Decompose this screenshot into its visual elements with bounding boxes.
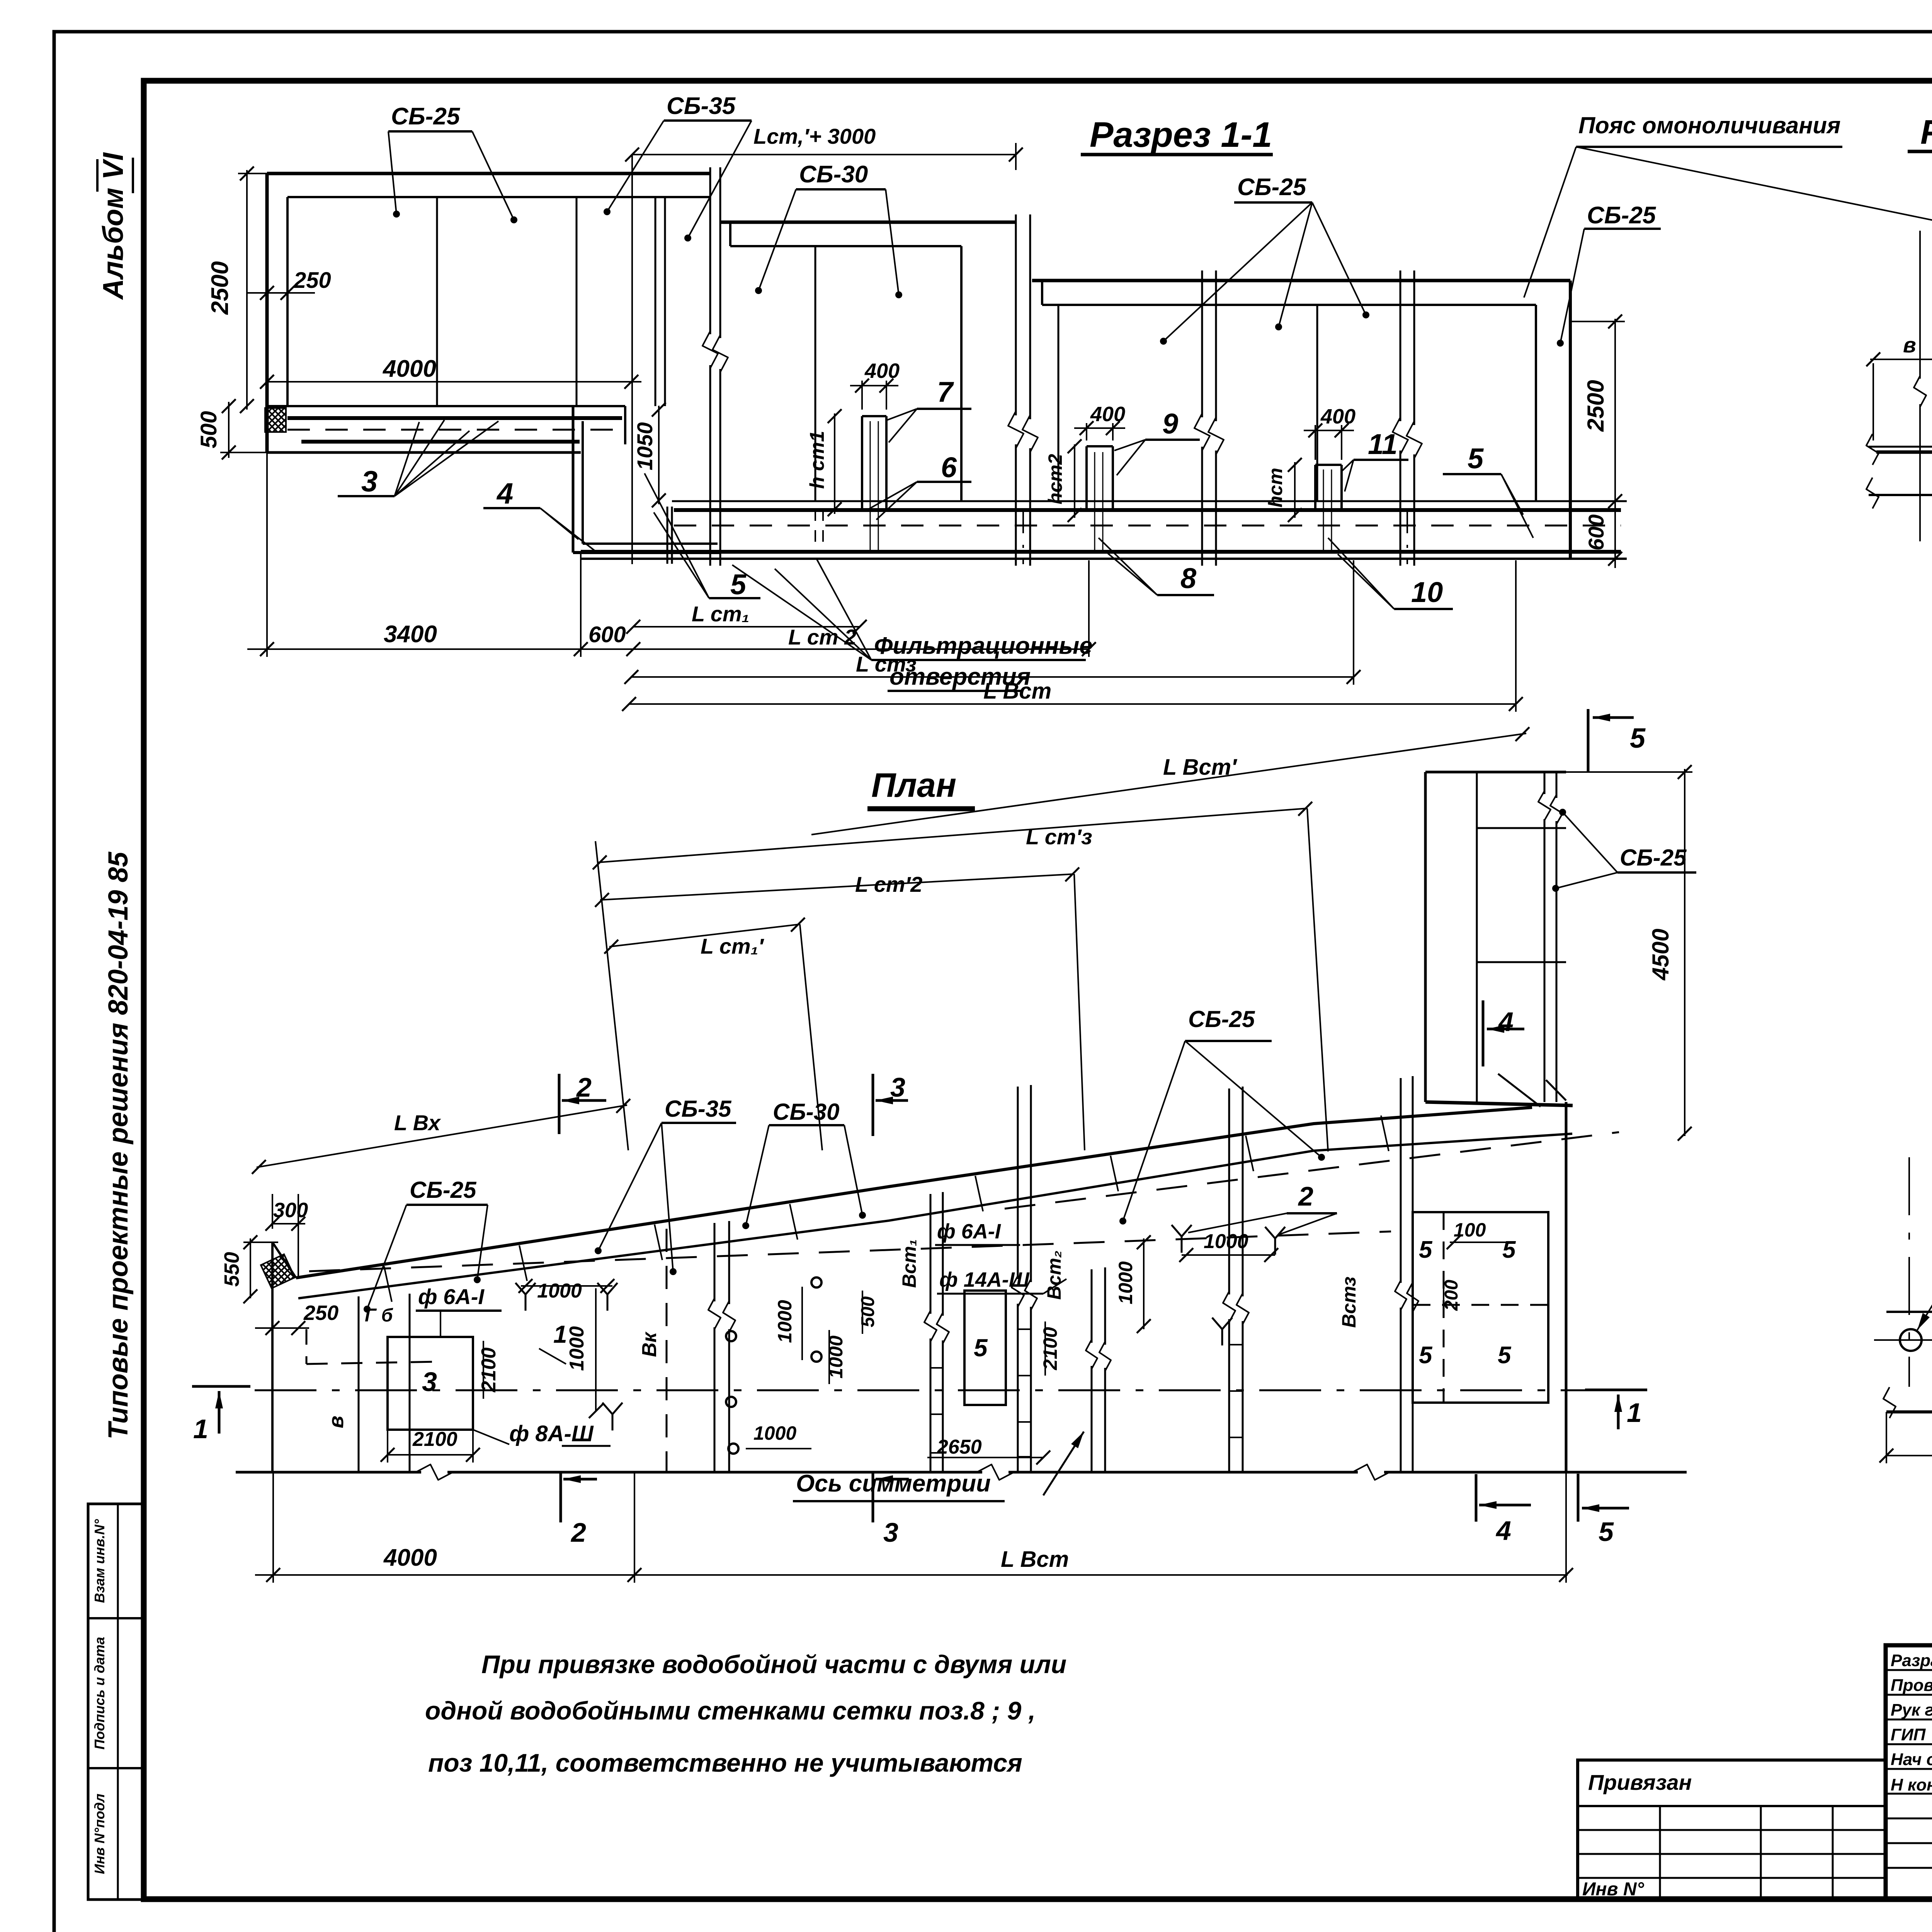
floor step down (572, 407, 575, 553)
plan slanted dim Lвст' (811, 733, 1526, 835)
svg-text:L ст₁′: L ст₁′ (701, 934, 764, 958)
svg-text:L Вст: L Вст (1001, 1547, 1069, 1572)
svg-text:250: 250 (293, 268, 331, 293)
svg-text:L Вст: L Вст (983, 679, 1051, 704)
svg-text:1050: 1050 (633, 422, 657, 471)
razrez55 bottom dims (1886, 1455, 1932, 1456)
plan section mark 1 right (1585, 1389, 1647, 1391)
svg-text:Вк: Вк (638, 1331, 661, 1357)
plan axis of symmetry (255, 1389, 1588, 1391)
plan bottom section mark 4 (1475, 1474, 1478, 1522)
plan bottom dim row 4000 Lвст (255, 1574, 1568, 1576)
razrez55 base steps (1886, 1311, 1932, 1313)
plan panel verticals group5 (1400, 1078, 1402, 1283)
plan ladder ticks vst1 (930, 1367, 943, 1369)
plan top section mark 3 (872, 1074, 874, 1136)
svg-text:8: 8 (1180, 562, 1197, 594)
plan dim 1000 vertical (595, 1288, 597, 1411)
razrez22 floor lines left (1869, 446, 1932, 448)
plan band joint ticks (384, 1266, 392, 1302)
svg-text:5: 5 (1502, 1236, 1516, 1263)
svg-text:СБ-30: СБ-30 (773, 1099, 840, 1125)
svg-text:2650: 2650 (937, 1436, 982, 1458)
svg-text:Вст₁: Вст₁ (898, 1239, 920, 1288)
svg-text:4: 4 (496, 477, 513, 510)
svg-text:5: 5 (1630, 723, 1646, 754)
svg-text:СБ-35: СБ-35 (667, 93, 736, 119)
svg-text:2: 2 (570, 1517, 586, 1548)
plan bottom section mark 3 (872, 1472, 874, 1522)
svg-text:СБ-25: СБ-25 (1237, 174, 1307, 201)
razrez55 left break (1883, 1387, 1896, 1418)
dim Lст3 (631, 676, 1354, 678)
svg-text:5: 5 (730, 568, 747, 600)
svg-text:400: 400 (864, 359, 900, 383)
svg-text:Вст₂: Вст₂ (1043, 1250, 1065, 1299)
svg-text:5: 5 (1419, 1236, 1433, 1263)
svg-text:400: 400 (1320, 405, 1355, 428)
svg-text:4000: 4000 (382, 355, 436, 382)
svg-text:L ст′з: L ст′з (1026, 825, 1092, 849)
svg-text:ф 14А-Ш: ф 14А-Ш (939, 1268, 1030, 1291)
break lines right end of wall 2 (1015, 214, 1017, 415)
dim Lст1 (633, 626, 860, 628)
svg-text:Разраб: Разраб (1891, 1651, 1932, 1670)
dim 250 (247, 292, 315, 294)
dim 4000 (267, 381, 641, 383)
svg-text:1000: 1000 (1115, 1261, 1136, 1304)
plan hidden dashed line right (1005, 1132, 1619, 1209)
extension line right of 4000 dim (631, 155, 633, 564)
dim 500 left (228, 402, 230, 458)
svg-text:5: 5 (974, 1334, 988, 1362)
svg-text:3: 3 (361, 465, 378, 498)
plan dim 500 rotated (862, 1291, 863, 1334)
dim 400 stub A (850, 385, 898, 386)
plan dim 550 (250, 1238, 251, 1298)
plan dim 1000 circles vertical (801, 1287, 803, 1360)
plan mesh 5 boxes right (1413, 1212, 1548, 1403)
svg-text:250: 250 (303, 1301, 338, 1325)
svg-text:600: 600 (1584, 514, 1608, 550)
svg-text:Инв N°подл: Инв N°подл (92, 1794, 107, 1874)
plan slanted dim Lст3' (598, 808, 1307, 862)
svg-text:400: 400 (1090, 403, 1125, 426)
svg-text:СБ-25: СБ-25 (391, 103, 461, 130)
svg-text:1000: 1000 (774, 1300, 796, 1343)
svg-text:Ось симметрии: Ось симметрии (796, 1470, 991, 1497)
plan dim 1000 between У (1182, 1254, 1275, 1256)
svg-text:1000: 1000 (1204, 1230, 1248, 1253)
svg-text:7: 7 (937, 376, 954, 408)
svg-text:hст: hст (1265, 468, 1286, 508)
svg-text:4500: 4500 (1648, 929, 1673, 980)
svg-text:ф 6А-I: ф 6А-I (418, 1284, 485, 1309)
plan filtration holes circles column 1 (726, 1331, 736, 1341)
plan dim 2100 horizontal (388, 1454, 473, 1456)
svg-text:5: 5 (1468, 442, 1484, 474)
svg-text:600: 600 (588, 622, 626, 647)
svg-text:Встз: Встз (1338, 1277, 1360, 1328)
svg-text:одной водобойными стенками: одной водобойными стенками сетки поз.8 ;… (425, 1696, 1036, 1725)
svg-text:5: 5 (1599, 1517, 1614, 1547)
plan dim 200 rotated (1443, 1271, 1444, 1318)
svg-text:СБ-35: СБ-35 (665, 1096, 732, 1122)
dim h ст1 (834, 413, 835, 514)
svg-text:в: в (325, 1416, 348, 1429)
floor slab left upper (267, 405, 625, 407)
wall 1 top slab (267, 172, 710, 175)
svg-text:Привязан: Привязан (1588, 1770, 1692, 1794)
plan mesh 5 box left (964, 1291, 1006, 1405)
svg-text:в: в (1903, 333, 1916, 357)
svg-text:ф 8А-Ш: ф 8А-Ш (509, 1421, 594, 1446)
plan bottom edge (236, 1471, 421, 1474)
svg-text:L ст 2: L ст 2 (788, 625, 856, 649)
svg-text:1000: 1000 (825, 1335, 847, 1378)
svg-text:9: 9 (1162, 408, 1178, 440)
wall 1 left face (265, 173, 269, 452)
plan right edge of basin (1565, 1102, 1568, 1472)
svg-text:Взам инв.N°: Взам инв.N° (92, 1519, 107, 1603)
plan dim 1000 circles horizontal (746, 1448, 811, 1449)
plan dim 1000 vertical mid (1143, 1238, 1145, 1329)
stub wall pos 11 (1315, 464, 1342, 466)
plan dim 1000-2 rotated (828, 1330, 830, 1384)
svg-text:СБ-25: СБ-25 (1188, 1006, 1255, 1032)
plan slanted dim Lст2' (600, 874, 1074, 900)
plan concrete edge vertical (409, 1294, 411, 1472)
svg-text:1: 1 (1627, 1398, 1642, 1428)
plan section mark 4 top (1482, 1000, 1485, 1066)
svg-text:1000: 1000 (753, 1422, 796, 1444)
svg-text:hст2: hст2 (1044, 454, 1066, 505)
left margin stamp boxes (88, 1504, 144, 1900)
plan dim 1000 top (521, 1285, 612, 1287)
svg-text:1: 1 (553, 1320, 567, 1348)
svg-text:L Вст′: L Вст′ (1163, 755, 1237, 780)
svg-text:L стз: L стз (856, 652, 917, 676)
title block signature rows (1886, 1669, 1932, 1671)
wall 3 joints (1058, 305, 1060, 501)
plan top wall band lower edge (298, 1134, 1572, 1298)
svg-text:4: 4 (1495, 1515, 1511, 1546)
filtration holes dashed marks (815, 509, 816, 552)
plan dim 250 left (255, 1327, 309, 1329)
svg-text:10: 10 (1411, 576, 1443, 608)
svg-text:Нач отд.: Нач отд. (1891, 1750, 1932, 1769)
svg-text:2100: 2100 (1039, 1327, 1061, 1370)
svg-text:4000: 4000 (383, 1544, 437, 1571)
plan ladder ticks group2 (1018, 1328, 1031, 1330)
svg-text:Инв N°: Инв N° (1582, 1879, 1645, 1900)
wall 3 top slab (1032, 279, 1570, 282)
plan top wall band upper edge (296, 1107, 1532, 1278)
wall 2 joints (815, 246, 816, 501)
wall3 break pair 1 (1201, 270, 1203, 417)
dim 2500 right (1614, 319, 1616, 506)
svg-text:2: 2 (1298, 1181, 1313, 1211)
svg-text:L ст₁: L ст₁ (692, 602, 749, 626)
wall 3 right end (1535, 305, 1537, 501)
plan hidden dashed corner left (306, 1329, 308, 1364)
svg-text:500: 500 (858, 1296, 878, 1327)
plan break pair wall1-wall2 (714, 1223, 716, 1301)
svg-text:11: 11 (1368, 428, 1398, 460)
bottom dim row 3400-600 (247, 648, 641, 650)
plan dim 2100 rotated right (1044, 1321, 1046, 1376)
plan wall joint vertical left (358, 1296, 360, 1472)
svg-text:1000: 1000 (537, 1280, 582, 1302)
svg-text:ГИП: ГИП (1891, 1725, 1926, 1744)
svg-text:3: 3 (422, 1367, 437, 1397)
svg-text:2100: 2100 (412, 1428, 457, 1451)
plan dim 4500 (1684, 769, 1685, 1136)
panel joint pair crossing lower floor (667, 507, 668, 564)
razrez55 hole circle (1900, 1329, 1922, 1351)
svg-text:Альбом VI: Альбом VI (97, 152, 129, 300)
dim Lвст (629, 703, 1516, 705)
slanted extension line for plan dims (595, 841, 628, 1150)
dim h ст2 (1074, 444, 1075, 518)
wall 2 top slab (720, 221, 1016, 224)
left attachment box Привязан (1578, 1760, 1886, 1899)
plan section mark 1 left (192, 1385, 250, 1388)
section mark 5 top right of plan (1587, 709, 1590, 773)
svg-text:СБ-25: СБ-25 (1587, 202, 1656, 229)
svg-text:СБ-25: СБ-25 (1620, 845, 1687, 871)
dim Lст2 (633, 648, 1089, 650)
svg-text:L Вх: L Вх (394, 1111, 441, 1135)
plan У symbols pos 2 (1181, 1236, 1183, 1253)
svg-text:Lст,′+ 3000: Lст,′+ 3000 (753, 124, 876, 148)
plan panel double lines vst1 (930, 1194, 932, 1314)
wall 1 panel joints (436, 197, 438, 406)
svg-text:3: 3 (890, 1072, 905, 1102)
svg-text:4: 4 (1498, 1007, 1514, 1037)
svg-text:поз 10,11, соответственно: поз 10,11, соответственно не учитываются (428, 1748, 1022, 1777)
svg-text:3400: 3400 (384, 621, 437, 648)
plan dim 2100 vertical (483, 1341, 484, 1399)
svg-text:ф 6А-I: ф 6А-I (937, 1220, 1001, 1243)
svg-text:1000: 1000 (566, 1326, 588, 1371)
plan ladder ticks group4 (1229, 1344, 1243, 1345)
plan slanted dim Lст1' (609, 924, 800, 947)
razrez22 axis dash line (1919, 231, 1921, 379)
svg-text:300: 300 (273, 1199, 308, 1222)
svg-text:При привязке водобойной час: При привязке водобойной части с двумя ил… (481, 1650, 1066, 1679)
razrez22 break marks left (1866, 434, 1879, 465)
svg-text:Пров: Пров (1891, 1676, 1932, 1695)
svg-text:2500: 2500 (1583, 380, 1609, 432)
svg-text:Пояс омоноличивания: Пояс омоноличивания (1578, 112, 1840, 138)
razrez55 bottom line (1886, 1410, 1932, 1413)
lower floor slab (672, 500, 1627, 502)
dim 400 stub B (1074, 427, 1125, 429)
dim 2500 left (246, 170, 248, 410)
svg-text:3: 3 (883, 1517, 898, 1548)
plan bottom section mark 2 (560, 1472, 562, 1522)
svg-text:План: План (871, 766, 956, 804)
svg-text:2100: 2100 (478, 1347, 500, 1393)
svg-text:2: 2 (576, 1072, 592, 1102)
dim h ст (1294, 462, 1296, 518)
stub wall pos 7 in wall2 (862, 415, 886, 417)
svg-text:Рук гр: Рук гр (1891, 1701, 1932, 1719)
dim 1050 (658, 406, 660, 504)
svg-text:Типовые проектные решения: Типовые проектные решения 820-04-19 85 (103, 851, 134, 1439)
svg-text:550: 550 (220, 1252, 243, 1287)
title block outer box (1886, 1645, 1932, 1899)
plan dim 300 (271, 1223, 305, 1225)
dim Lст1+3000 (632, 154, 1016, 155)
svg-text:L ст′2: L ст′2 (855, 872, 922, 896)
svg-text:200: 200 (1441, 1280, 1462, 1311)
wall3 break pair 2 (1400, 270, 1401, 421)
plan panel double lines group4 (1228, 1088, 1230, 1294)
plan bottom section mark 5 (1577, 1474, 1580, 1522)
svg-text:Подпись и дата: Подпись и дата (92, 1637, 107, 1750)
plan mid panel verticals group3 (1091, 1269, 1093, 1343)
svg-text:1: 1 (193, 1414, 208, 1444)
svg-text:СБ-25: СБ-25 (410, 1177, 477, 1203)
plan hidden dashed line upper (309, 1231, 1391, 1271)
svg-text:500: 500 (196, 411, 221, 449)
svg-text:6: 6 (941, 451, 957, 483)
plan filtration holes circles column 2 (811, 1277, 821, 1287)
svg-text:h ст1: h ст1 (806, 431, 828, 489)
anchor crosshatch block left floor (265, 408, 286, 432)
svg-text:5: 5 (1419, 1342, 1433, 1369)
plan top-right pit box КК (1424, 772, 1427, 1102)
plan dim Lвх (257, 1105, 627, 1167)
plan mesh 3 rectangle (388, 1337, 473, 1430)
plan pit box bottom edge (1425, 1102, 1573, 1105)
svg-text:Разрез 2-2: Разрез 2-2 (1920, 113, 1932, 151)
razrez22 dim в (1870, 359, 1932, 360)
plan top section mark 2 (558, 1074, 561, 1134)
dim 400 stub C (1304, 430, 1354, 431)
break lines between wall 1 and wall 2 (709, 167, 711, 334)
dim 600 right (1614, 501, 1616, 568)
svg-text:5: 5 (1498, 1342, 1512, 1369)
svg-text:Н контр.: Н контр. (1891, 1776, 1932, 1794)
svg-text:2500: 2500 (207, 261, 233, 315)
svg-text:СБ-30: СБ-30 (799, 161, 868, 188)
plan left edge and bottom (271, 1328, 274, 1472)
plan panel double lines group 2 (1017, 1087, 1019, 1279)
stub wall pos 9 (1087, 445, 1113, 447)
plan left end corner (272, 1242, 296, 1278)
svg-text:Разрез 1-1: Разрез 1-1 (1090, 115, 1272, 155)
plan vertical dashed Вк line (666, 1229, 668, 1472)
